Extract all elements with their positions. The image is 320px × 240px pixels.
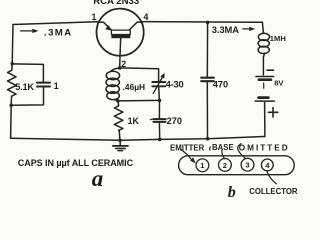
crystal block lower filled	[111, 35, 130, 39]
wire tank bottom bar	[118, 99, 160, 102]
capacitor C4 470 plates	[201, 77, 214, 79]
svg-text:470: 470	[213, 80, 228, 90]
battery B1 middle dash	[263, 83, 265, 88]
capacitor C2 4-30 plates	[152, 81, 165, 83]
pin circle 4	[261, 159, 273, 171]
svg-text:OMITTED: OMITTED	[239, 143, 290, 152]
svg-text:4: 4	[265, 161, 270, 170]
node dot tank bottom right	[158, 99, 162, 103]
wire top right from pin 4 to corner	[144, 21, 263, 24]
node dot bottom at 270	[158, 138, 162, 142]
svg-text:1: 1	[92, 12, 97, 22]
current arrow .3MA	[21, 30, 34, 32]
node dot tank top	[118, 66, 122, 70]
pin circle 1	[196, 159, 209, 172]
svg-text:2: 2	[223, 161, 227, 170]
pin circle 3	[241, 158, 254, 171]
svg-text:1K: 1K	[128, 116, 140, 126]
svg-text:.46µH: .46µH	[123, 82, 146, 92]
svg-text:5.1K: 5.1K	[15, 82, 34, 92]
wire bottom rail	[11, 137, 265, 141]
svg-text:3: 3	[245, 161, 249, 170]
inductor L2 1MH coil	[258, 33, 269, 40]
wire right top corner down	[262, 22, 263, 33]
svg-text:8V: 8V	[274, 78, 284, 87]
resistor R1 5.1K zigzag	[8, 64, 17, 105]
svg-text:1MH: 1MH	[270, 34, 286, 43]
battery B1 plate short thick 2	[259, 96, 269, 99]
svg-text:1: 1	[200, 161, 205, 170]
collector whisker	[129, 22, 144, 30]
svg-text:4-30: 4-30	[166, 79, 184, 90]
leader base comma	[209, 147, 212, 150]
battery B1 plate long bottom	[255, 100, 274, 102]
wire 4-30 bottom lead	[158, 87, 161, 101]
svg-text:1: 1	[54, 81, 59, 91]
svg-text:270: 270	[167, 116, 182, 126]
node dot left bottom bar junction	[10, 104, 13, 107]
leader base to pin 2	[222, 150, 225, 159]
capacitor C3 270 lead top	[158, 100, 160, 118]
crystal block upper	[111, 30, 130, 34]
capacitor C1 branch top bar	[12, 64, 43, 82]
capacitor C4 470 lead top	[206, 22, 208, 77]
node dot left top bar junction	[11, 62, 14, 65]
svg-text:RCA 2N33: RCA 2N33	[93, 0, 139, 7]
leader collector to pin 4	[267, 171, 277, 184]
node dot bottom at 470	[206, 137, 210, 141]
svg-text:BASE: BASE	[212, 143, 234, 152]
node dot tank bottom left	[116, 99, 120, 103]
node dot bottom at 1K	[118, 139, 122, 143]
pin circle 2	[219, 159, 232, 172]
transistor Q1 envelope circle	[97, 9, 144, 56]
svg-text:.3MA: .3MA	[44, 27, 73, 38]
diagram b stadium outline	[179, 156, 295, 175]
current arrow 3.3MA	[243, 28, 251, 30]
ground symbol	[119, 140, 121, 145]
wire top left from corner to transistor pin 1	[13, 22, 97, 25]
inductor L1 .46uH coil	[111, 68, 120, 71]
trimmer arrow through 4-30	[153, 77, 163, 94]
wire battery to bottom	[264, 101, 266, 136]
resistor R2 1K zigzag	[114, 101, 123, 140]
svg-text:2: 2	[121, 59, 126, 69]
svg-text:COLLECTOR: COLLECTOR	[249, 187, 298, 196]
svg-text:3.3MA: 3.3MA	[212, 24, 239, 35]
capacitor C3 270 plates	[153, 118, 165, 120]
emitter whisker with arrow	[97, 22, 112, 30]
battery B1 plate short thick	[259, 78, 271, 81]
svg-text:EMITTER: EMITTER	[170, 144, 205, 153]
base lead wire pin 2	[120, 38, 121, 68]
svg-text:b: b	[228, 184, 236, 201]
svg-text:4: 4	[144, 12, 149, 22]
leader emitter to pin 1	[181, 149, 192, 160]
wire tank top bar to 4-30	[120, 68, 159, 81]
node dot at 470 top	[206, 21, 210, 25]
svg-text:CAPS IN µµf ALL CERAMIC: CAPS IN µµf ALL CERAMIC	[18, 158, 134, 168]
wire left vertical lower to bottom	[10, 105, 13, 138]
svg-text:a: a	[92, 166, 104, 191]
battery B1 plus sign	[268, 108, 278, 117]
capacitor C3 270 lead bottom	[158, 122, 160, 139]
battery B1 plate long top	[256, 76, 274, 78]
capacitor C1 branch bottom bar	[11, 87, 43, 105]
capacitor C1 plates	[37, 82, 50, 84]
tick mark left of 270	[150, 118, 152, 121]
wire left vertical upper	[11, 25, 14, 64]
battery B1 minus sign	[267, 69, 273, 71]
capacitor C4 470 lead bottom	[206, 82, 208, 139]
leader omitted to pin 3	[238, 144, 245, 158]
